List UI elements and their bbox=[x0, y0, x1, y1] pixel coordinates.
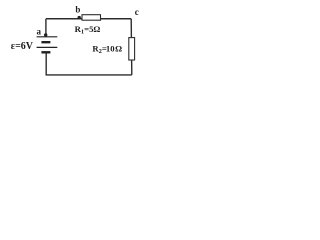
svg-text:a: a bbox=[37, 27, 42, 37]
node b junction dot bbox=[78, 16, 81, 19]
battery cell 2 short thick plate bbox=[41, 51, 50, 53]
svg-text:ε=6V: ε=6V bbox=[11, 41, 34, 52]
battery cell 2 long plate bbox=[37, 46, 58, 48]
wire bottom (battery negative lead down, across to bottom-right corner) bbox=[46, 53, 132, 75]
resistor R2 (box on right wire) bbox=[129, 38, 135, 60]
svg-text:R1=5Ω: R1=5Ω bbox=[75, 24, 101, 36]
svg-text:R2=10 Ω: R2=10 Ω bbox=[92, 44, 122, 56]
node a junction dot bbox=[44, 33, 47, 36]
wire left vertical (top-left corner down to battery top plate) bbox=[45, 19, 47, 37]
resistor R1 (box on top wire) bbox=[82, 15, 101, 21]
wire right vertical (node c corner down to bottom-right corner) bbox=[130, 19, 133, 75]
battery cell 1 short thick plate bbox=[41, 41, 50, 43]
wire top (from top-left corner through node b to top-right corner) bbox=[46, 18, 131, 20]
svg-text:b: b bbox=[75, 5, 80, 15]
svg-text:c: c bbox=[135, 7, 139, 17]
battery cell 1 long plate bbox=[37, 36, 58, 38]
